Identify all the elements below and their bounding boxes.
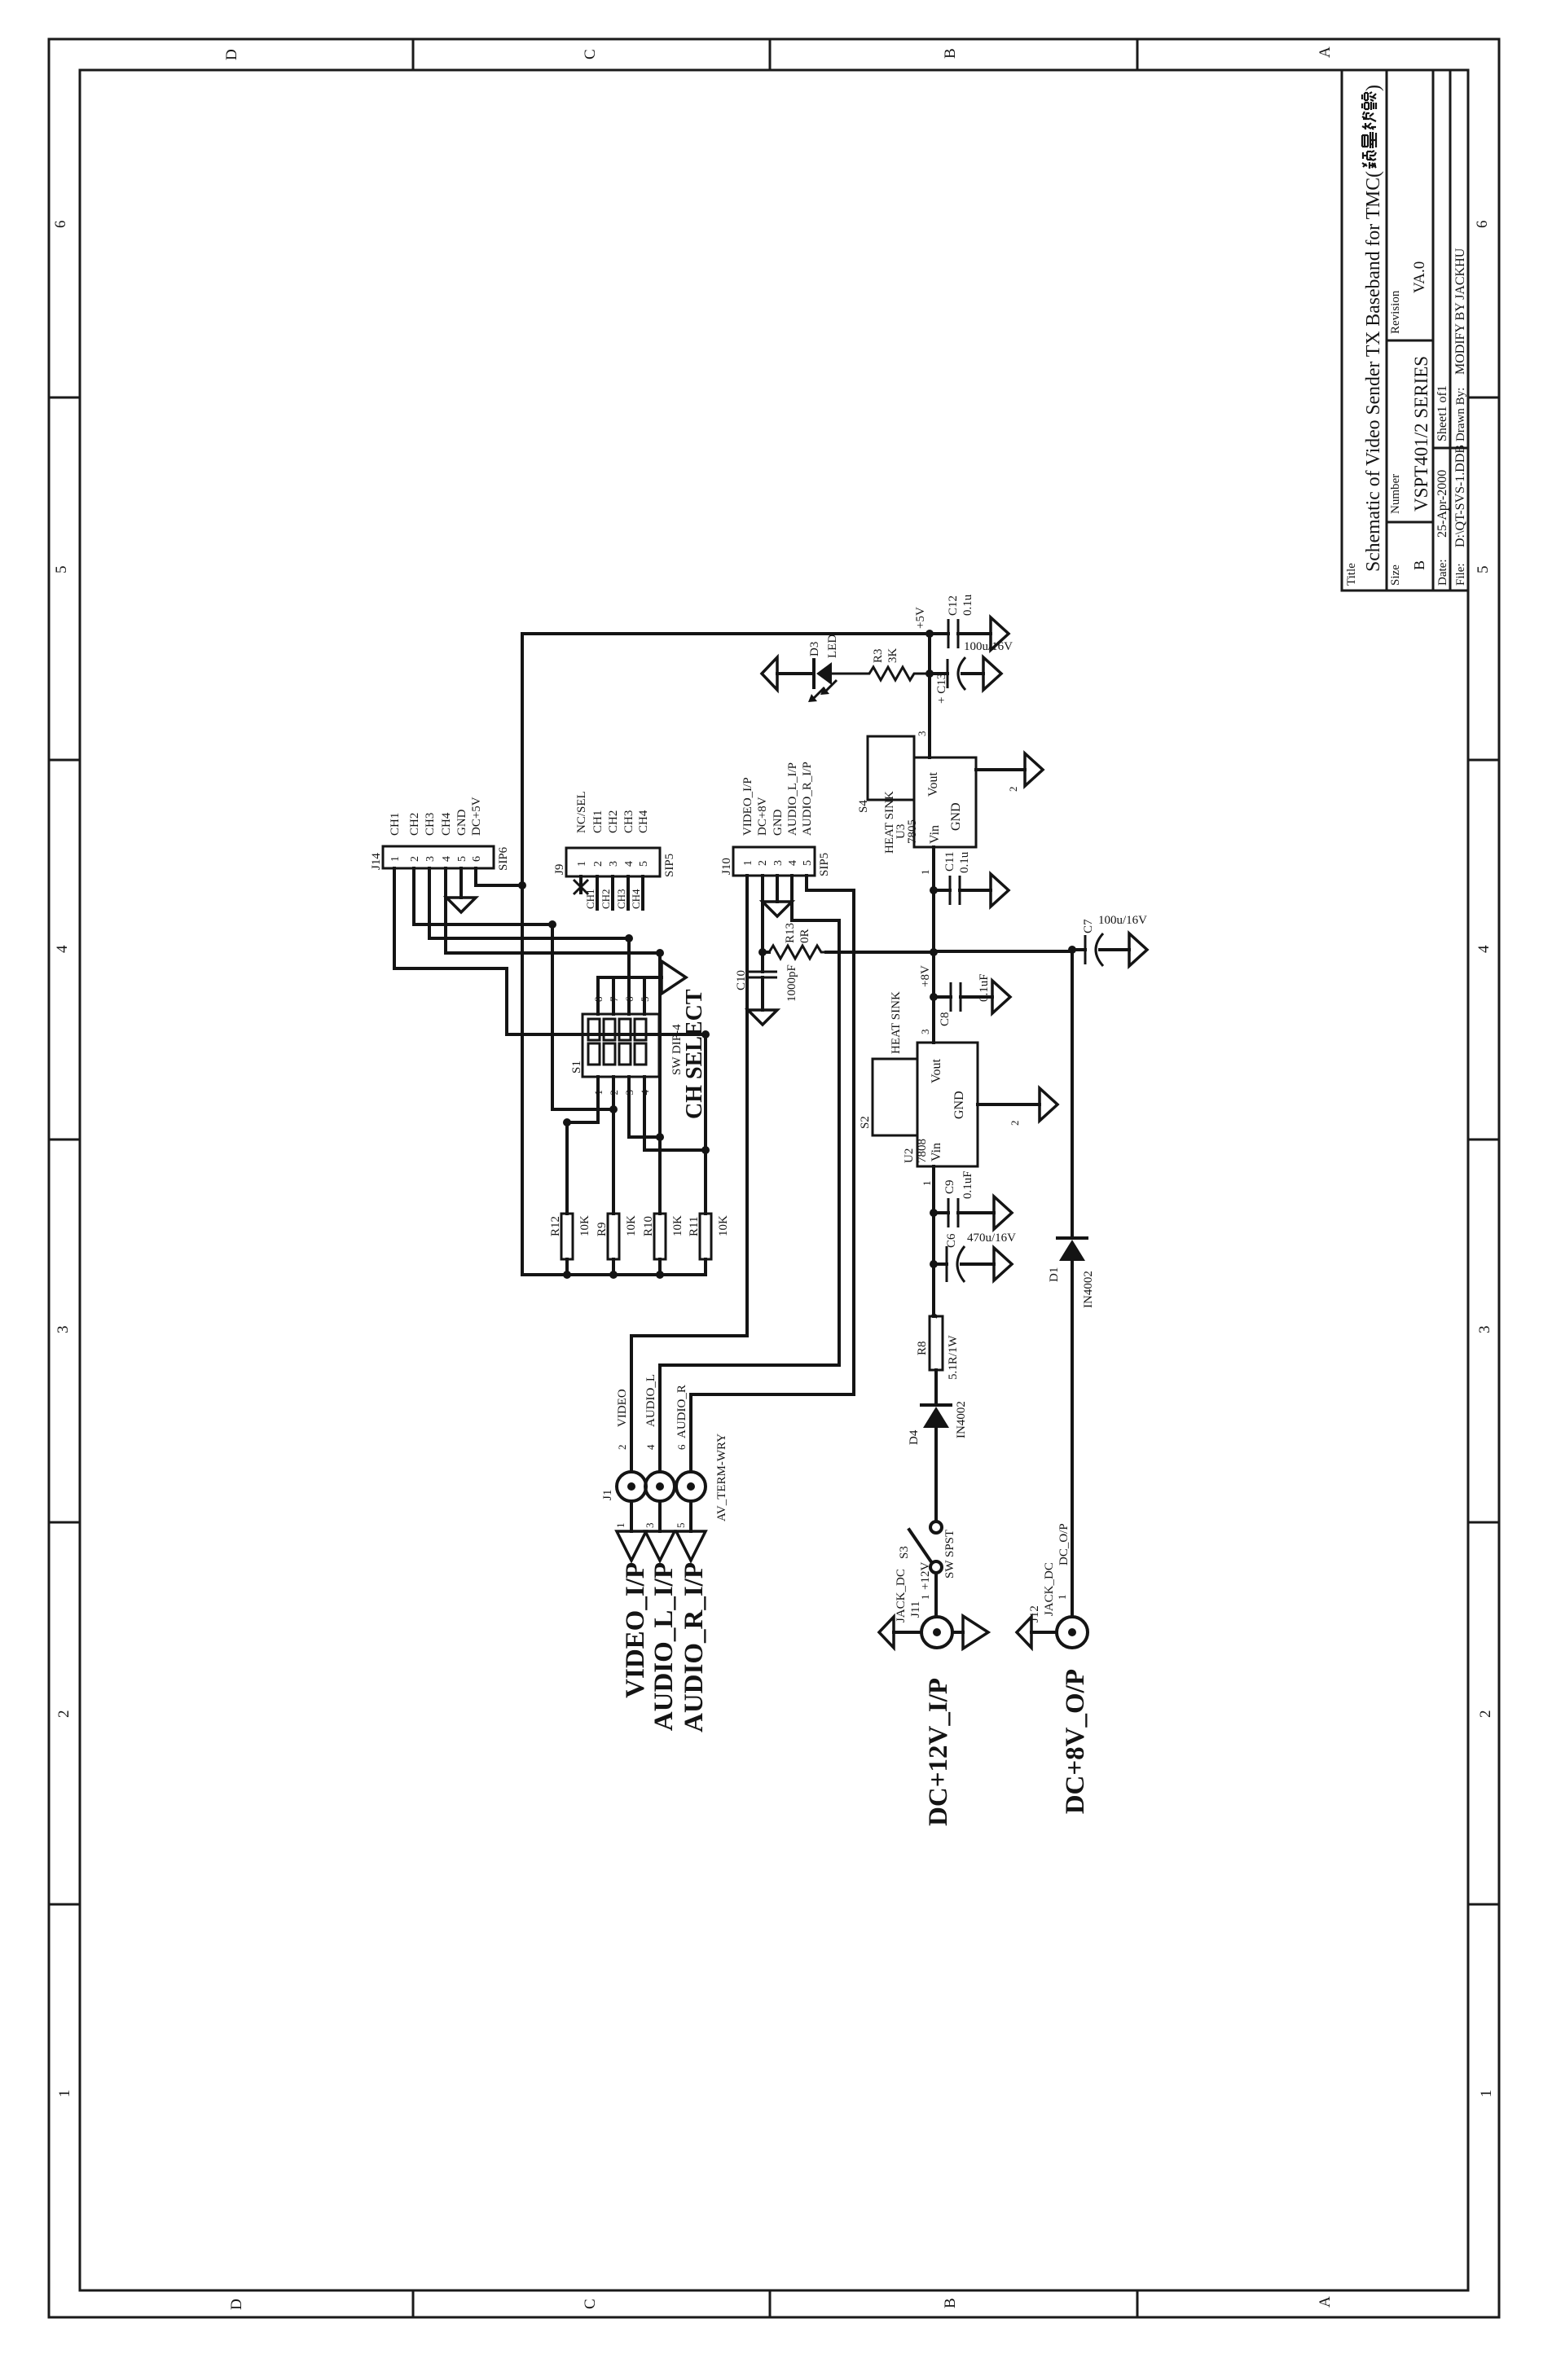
diode D1 1N4002 [1048,1238,1095,1308]
svg-text:5: 5 [53,566,70,574]
junction S1 pin1 [563,1118,571,1126]
svg-text:C6: C6 [945,1233,958,1248]
svg-text:Size: Size [1389,564,1402,586]
wire S1 pin2 stub [612,1077,615,1109]
capacitor C11 0.1u [934,851,991,905]
svg-text:2: 2 [1009,1121,1021,1126]
wire J14 pin2 CH2 [414,868,613,1109]
svg-text:R9: R9 [596,1222,609,1236]
ground S1 [662,961,686,994]
svg-text:DC+8V_O/P: DC+8V_O/P [1061,1669,1090,1814]
capacitor C9 0.1uF [934,1170,994,1227]
junction LED chain [925,670,934,678]
ground U2 [1040,1088,1057,1121]
svg-text:1: 1 [614,1523,627,1529]
svg-text:1: 1 [56,2090,73,2098]
svg-text:5: 5 [802,860,814,866]
svg-text:3: 3 [1476,1326,1493,1334]
junction CH2 elbow [548,920,556,929]
svg-text:U2: U2 [903,1148,916,1163]
svg-text:1: 1 [742,860,754,866]
junction R13 top [758,948,767,956]
wire U3 GND pin 2 [976,768,1025,771]
zone ticks bottom [1468,397,1499,1904]
svg-text:DC+8V: DC+8V [756,797,769,836]
svg-text:4: 4 [623,861,635,867]
svg-text:File:: File: [1454,563,1467,586]
junction CH2 row [609,1105,618,1113]
ground C6 [994,1248,1012,1280]
svg-text:GND: GND [952,1091,966,1119]
svg-text:Vin: Vin [930,1143,943,1161]
svg-text:CH4: CH4 [630,889,642,909]
wire +5V bus left riser [522,1273,706,1276]
svg-text:DC+5V: DC+5V [470,797,483,836]
zone letters left [228,2296,1334,2310]
svg-text:S1: S1 [570,1060,583,1074]
wire R8 to U2 [934,1315,936,1316]
svg-text:Schematic of Video Sender TX B: Schematic of Video Sender TX Baseband fo… [1363,171,1384,572]
svg-text:IN4002: IN4002 [955,1401,968,1438]
svg-text:JACK_DC: JACK_DC [895,1569,908,1623]
svg-text:3: 3 [644,1523,656,1529]
svg-text:B: B [942,48,959,59]
svg-text:Title: Title [1345,563,1358,586]
wire S1 pin1 stub [567,1077,598,1122]
wire J10 pin5 AUDIO_R [805,876,808,890]
switch S3 SW SPST [909,1522,942,1573]
ground C12 [991,617,1009,650]
svg-text:2: 2 [1477,1710,1494,1719]
svg-text:CH1: CH1 [389,813,402,836]
svg-text:R10: R10 [642,1216,655,1236]
connector J1 RCA AUDIO L [645,1472,675,1501]
connector J10 SIP5 [720,847,831,876]
svg-text:2: 2 [616,1445,628,1451]
junction R9 bus [609,1271,618,1279]
ground J14 pin5 [446,898,476,912]
svg-text:CH2: CH2 [408,813,421,836]
switch S1 SW DIP-4 [570,1014,684,1077]
ground LED [762,657,777,690]
wire J14 pin5 GND stub [459,868,463,898]
svg-text:D3: D3 [808,642,821,656]
svg-text:DC+12V_I/P: DC+12V_I/P [924,1678,953,1826]
svg-text:VIDEO_I/P: VIDEO_I/P [621,1562,650,1698]
wire J10 pin2 DC+8V [761,876,764,952]
svg-text:JACK_DC: JACK_DC [1043,1562,1056,1616]
resistor R3 3K [832,648,930,681]
junction C9 [930,1209,938,1217]
svg-text:25-Apr-2000: 25-Apr-2000 [1435,470,1449,538]
svg-text:R13: R13 [784,923,797,943]
svg-text:C8: C8 [939,1012,952,1026]
svg-text:AUDIO_R: AUDIO_R [675,1385,688,1438]
wire RCA audio R [689,1394,692,1472]
svg-text:+8V: +8V [919,965,932,987]
wire J14 pin4 CH4 [446,868,660,953]
svg-text:3: 3 [55,1326,72,1334]
svg-text:0R: 0R [798,929,811,943]
wire J10 pin4 AUDIO_L [790,876,794,920]
svg-text:6: 6 [1474,221,1491,229]
power arrow J11 [879,1617,894,1648]
svg-text:2: 2 [409,856,421,862]
svg-text:10K: 10K [625,1215,638,1236]
svg-text:J1: J1 [601,1490,614,1500]
junction +8V output [1068,946,1076,954]
svg-text:6: 6 [52,221,69,229]
wire +5V rail riser [522,632,930,635]
svg-text:S3: S3 [898,1546,911,1559]
svg-text:C12: C12 [947,595,960,616]
svg-text:CH3: CH3 [615,889,627,909]
svg-text:LED: LED [826,635,839,658]
CJK glyphs (drawn) 統星外殼 [1362,92,1376,169]
svg-text:Sheet1 of1: Sheet1 of1 [1435,385,1449,441]
svg-text:VSPT401/2 SERIES: VSPT401/2 SERIES [1411,356,1431,512]
svg-text:CH4: CH4 [440,812,453,836]
capacitor C13 100u/16V [930,640,1013,704]
wire J9 pin5 stub [641,876,644,909]
zone numbers top [52,221,73,2098]
connector J11 JACK_DC [879,1569,988,1649]
wire J14 pin3 CH3 [429,868,629,938]
wire J9 pin2 stub [596,876,599,909]
svg-text:MODIFY BY JACKHU: MODIFY BY JACKHU [1453,248,1467,375]
resistor R8 5.1R/1W [916,1316,960,1380]
svg-text:Date:: Date: [1436,560,1449,586]
LED arrows [811,687,824,700]
svg-text:0.1uF: 0.1uF [978,973,991,1002]
ground RCA audio L [658,1501,662,1531]
svg-text:R8: R8 [916,1341,929,1355]
svg-text:CH SELECT: CH SELECT [682,989,707,1119]
ground C13 [983,657,1001,690]
svg-text:D: D [228,2299,245,2310]
svg-text:IN4002: IN4002 [1082,1271,1095,1308]
svg-text:CH2: CH2 [600,889,612,909]
ground U3 [1025,753,1043,786]
wire J11 to S3 [934,1573,938,1617]
svg-text:B: B [942,2298,959,2308]
resistor R9 10K [596,1077,638,1275]
svg-text:CH4: CH4 [637,810,650,833]
connector J1 RCA AUDIO R [676,1472,706,1501]
wire RCA video to J10 [630,1336,633,1472]
svg-text:S4: S4 [857,800,870,813]
svg-text:6: 6 [471,856,483,862]
svg-text:100u/16V: 100u/16V [1098,914,1147,927]
capacitor C7 100u/16V [1072,914,1147,966]
svg-text:2: 2 [55,1710,73,1719]
svg-text:AUDIO_R_I/P: AUDIO_R_I/P [679,1562,709,1732]
svg-text:D4: D4 [908,1429,921,1445]
svg-text:4: 4 [54,945,71,953]
ground C10 [748,1010,777,1025]
wire U2 Vout to U3 Vin [932,847,935,1043]
wire D4 to R8 [934,1370,938,1405]
svg-text:CH3: CH3 [424,813,437,836]
svg-text:AUDIO_L_I/P: AUDIO_L_I/P [649,1562,679,1731]
svg-text:C: C [582,2299,599,2309]
svg-text:GND: GND [772,809,785,836]
svg-text:4: 4 [1475,945,1493,953]
wire U2 GND pin 2 [978,1103,1040,1106]
zone letters right [223,46,1334,60]
svg-text:CH1: CH1 [584,889,596,909]
junction S1 pin3 [656,1133,664,1141]
svg-text:CH2: CH2 [607,810,620,833]
svg-text:Vout: Vout [926,772,940,797]
zone numbers bottom [1474,221,1495,2098]
junction C8 [930,993,938,1001]
svg-text:AUDIO_L_I/P: AUDIO_L_I/P [786,762,799,836]
svg-text:R11: R11 [688,1217,701,1236]
wire J10 pin3 GND stub [776,876,779,902]
capacitor C6 470u/16V [934,1232,1016,1282]
svg-text:AV_TERM-WRY: AV_TERM-WRY [715,1434,728,1522]
wire S1 common riser [598,976,662,979]
svg-text:Vout: Vout [930,1059,943,1083]
wire S1 pin3 stub [629,1077,660,1137]
svg-text:4: 4 [644,1444,657,1450]
junction C11 [930,886,938,894]
connector J9 SIP5 [553,848,676,877]
wire J14 pin1 CH1 [394,868,706,1034]
junction R12 bus [563,1271,571,1279]
svg-text:1: 1 [1056,1595,1068,1601]
junction C6 [930,1260,938,1268]
wire RCA audio L [658,1365,662,1472]
svg-text:Drawn By:: Drawn By: [1454,388,1467,441]
junction R10 bus [656,1271,664,1279]
svg-text:5.1R/1W: 5.1R/1W [947,1335,960,1380]
pin labels J9 [575,791,650,833]
svg-text:3: 3 [424,856,437,862]
svg-text:1: 1 [921,1181,933,1187]
svg-text:2: 2 [757,860,769,866]
svg-text:3: 3 [772,860,785,866]
svg-text:1: 1 [919,1595,931,1601]
svg-text:3: 3 [608,861,620,867]
svg-text:GND: GND [455,809,468,836]
svg-text:AUDIO_L: AUDIO_L [644,1374,657,1427]
junction DC+5V to bus [518,881,526,889]
svg-text:C: C [582,49,599,59]
connector J14 SIP6 [370,846,510,871]
svg-text:SW SPST: SW SPST [943,1530,956,1579]
svg-text:3K: 3K [886,648,899,664]
svg-text:J12: J12 [1028,1605,1041,1623]
capacitor C8 0.1uF [934,973,992,1026]
diode D4 1N4002 [908,1401,968,1445]
svg-text:0.1uF: 0.1uF [961,1170,974,1199]
ground C7 [1129,933,1147,966]
svg-text:C11: C11 [943,852,956,872]
svg-text:): ) [1363,85,1384,91]
svg-text:A: A [1317,46,1334,58]
regulator U2 7808 [903,1043,978,1166]
no-connect X J9 pin1 [574,880,588,894]
svg-text:Number: Number [1389,474,1402,514]
svg-text:7808: 7808 [916,1139,929,1163]
junction S1 pin4 [701,1146,710,1154]
svg-text:NC/SEL: NC/SEL [575,791,588,833]
heatsink S4 [868,736,914,800]
svg-text:1: 1 [919,870,931,876]
wire U3 Vout to +5V rail [928,634,931,757]
svg-text:AUDIO_R_I/P: AUDIO_R_I/P [801,762,814,836]
ground C8 [992,981,1010,1013]
svg-text:0.1u: 0.1u [961,594,974,616]
ground RCA audio R [689,1501,692,1531]
svg-text:SIP5: SIP5 [663,854,676,877]
svg-text:470u/16V: 470u/16V [967,1232,1016,1245]
svg-text:S2: S2 [859,1116,872,1129]
power arrow J12 [1017,1617,1031,1648]
svg-text:6: 6 [675,1444,688,1450]
connector J12 JACK_DC [1017,1562,1088,1648]
svg-text:2: 2 [1007,787,1019,793]
wire +5V bus top [521,634,524,1275]
resistor R11 10K [688,1034,730,1275]
svg-text:2: 2 [592,861,605,867]
svg-text:SIP6: SIP6 [497,846,510,871]
svg-text:+ C13: + C13 [935,674,948,704]
svg-text:5: 5 [1475,566,1492,574]
pin labels J10 [741,762,814,836]
svg-text:D:\QT-SVS-1.DDB: D:\QT-SVS-1.DDB [1453,445,1467,547]
svg-text:3: 3 [916,731,928,737]
svg-text:1000pF: 1000pF [785,964,798,1002]
svg-text:4: 4 [787,860,799,866]
resistor R10 10K [642,953,684,1275]
svg-text:J10: J10 [720,858,733,875]
svg-text:1: 1 [389,856,402,862]
svg-text:VA.0: VA.0 [1411,261,1428,293]
svg-text:GND: GND [949,802,963,831]
svg-text:R12: R12 [549,1216,562,1236]
svg-text:C9: C9 [943,1179,956,1194]
svg-text:0.1u: 0.1u [958,851,971,873]
svg-text:J11: J11 [909,1601,922,1618]
wire S3 to D4 [934,1428,938,1522]
svg-text:CH1: CH1 [591,810,605,833]
svg-text:5: 5 [456,856,468,862]
svg-text:CH3: CH3 [622,810,635,833]
LED D3 [777,635,839,702]
svg-text:1: 1 [576,861,588,867]
connector J1 RCA VIDEO [601,1472,646,1501]
svg-text:DC_O/P: DC_O/P [1057,1523,1071,1565]
wire J14 pin6 DC+5V [476,868,522,885]
junction CH3 row [625,934,633,942]
svg-text:J9: J9 [553,864,566,875]
svg-text:Vin: Vin [928,825,942,844]
svg-text:+5V: +5V [914,607,927,629]
svg-text:1: 1 [1478,2090,1495,2098]
svg-text:VIDEO_I/P: VIDEO_I/P [741,777,754,836]
junction CH1 row [701,1030,710,1039]
ground RCA video [630,1501,633,1531]
svg-text:7805: 7805 [906,819,919,844]
svg-text:4: 4 [441,856,453,862]
junction +8V riser [930,948,938,956]
svg-text:R3: R3 [872,648,885,663]
svg-text:5: 5 [675,1523,687,1529]
wire J9 pin4 stub [627,876,630,909]
pin labels J14 [389,797,483,836]
wire J10 pin1 VIDEO [745,876,749,1336]
svg-text:B: B [1411,560,1427,570]
svg-text:A: A [1317,2296,1334,2308]
svg-text:D1: D1 [1048,1267,1061,1282]
wire D1 to +8V node [1071,950,1074,1238]
svg-text:HEAT SINK: HEAT SINK [890,991,903,1054]
svg-text:5: 5 [638,861,650,867]
svg-text:3: 3 [919,1030,931,1035]
wire J11 top stub [894,1631,921,1634]
svg-text:D: D [223,49,240,60]
capacitor C10 1000pF [735,952,798,1010]
svg-text:Revision: Revision [1389,290,1402,334]
wire J9 pin3 stub [611,876,614,909]
wire J9 pin1 stub [579,876,583,893]
wire S1 pin7 stub [612,977,615,1014]
zone ticks top [49,397,80,1904]
wire S1 pin5 stub [643,977,646,1014]
svg-text:10K: 10K [578,1215,591,1236]
wire +8V riser (J10 pin2 to output node) [826,951,934,954]
ground C9 [994,1197,1012,1229]
svg-text:100u/16V: 100u/16V [964,640,1013,653]
ground J10 pin3 [763,902,792,916]
ground J11 [963,1616,988,1649]
resistor R12 10K [549,1122,591,1275]
wire J12 to D1 [1071,1261,1074,1617]
resistor R13 0R [763,923,826,959]
svg-text:10K: 10K [671,1215,684,1236]
zone ticks right [413,39,1137,70]
ground C11 [991,874,1009,907]
svg-text:10K: 10K [717,1215,730,1236]
heatsink S2 [873,1059,917,1135]
svg-text:SIP5: SIP5 [818,853,831,876]
regulator U3 7805 [914,757,976,847]
junction +5V rail [925,630,934,638]
wire S1 pin8 stub [596,977,600,1014]
wire J11 bottom stub [952,1631,963,1634]
capacitor C12 0.1u [930,594,991,648]
junction CH4 row [656,949,664,957]
svg-text:C7: C7 [1082,919,1095,933]
svg-text:J14: J14 [370,853,383,870]
wire S1 pin4 stub [644,1077,706,1150]
zone ticks left [413,2290,1137,2317]
wire S1 pin6 stub [627,938,631,1014]
svg-text:VIDEO: VIDEO [616,1389,629,1427]
